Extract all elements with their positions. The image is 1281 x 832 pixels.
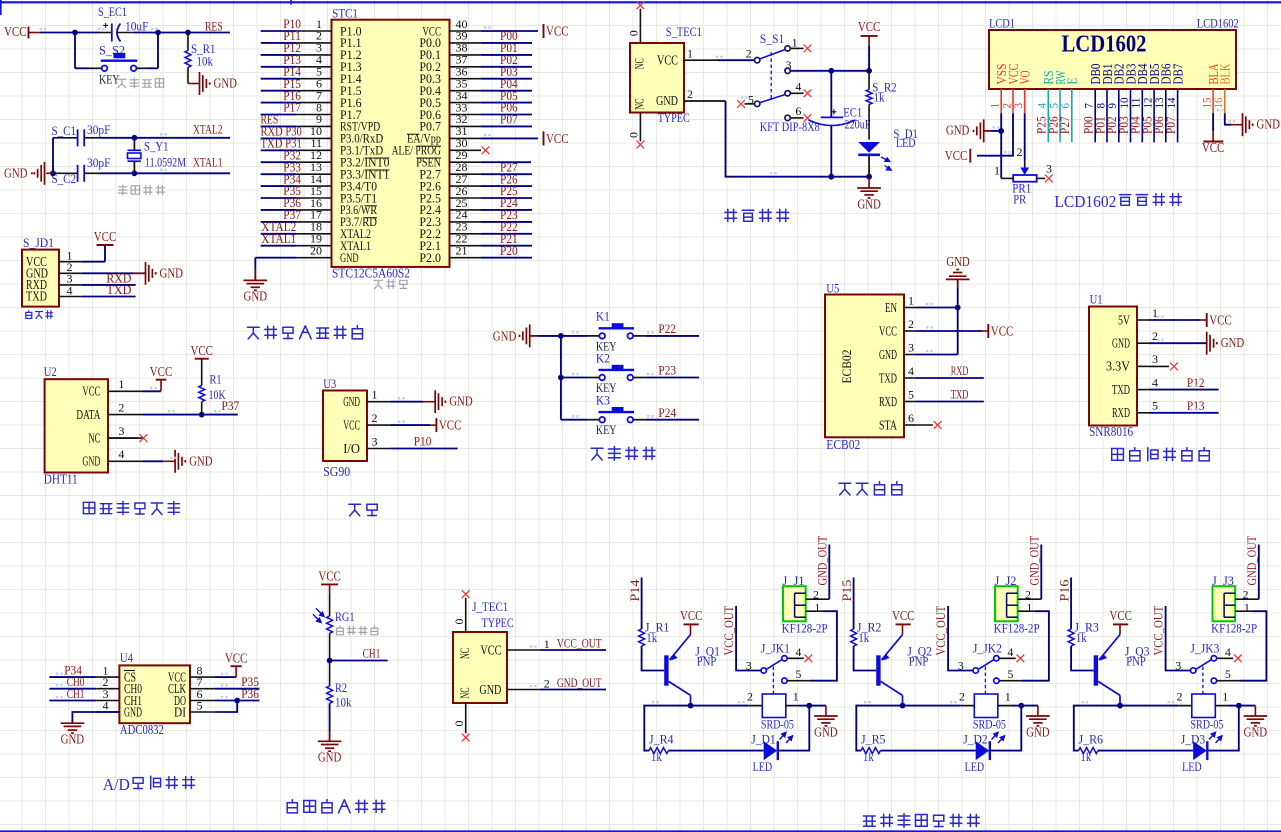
svg-text:20: 20	[310, 244, 322, 258]
svg-text:R1: R1	[210, 372, 222, 387]
svg-text:ECB02: ECB02	[839, 350, 854, 384]
pin 40	[450, 30, 482, 32]
svg-text:U3: U3	[323, 376, 336, 391]
svg-text:TYPEC: TYPEC	[658, 110, 690, 125]
svg-text:PR: PR	[1013, 192, 1026, 207]
svg-text:TXD: TXD	[879, 370, 897, 385]
svg-text:XTAL2: XTAL2	[193, 122, 223, 137]
svg-text:DI: DI	[174, 704, 186, 719]
svg-text:E: E	[1065, 78, 1080, 85]
svg-text:J_R6: J_R6	[1079, 731, 1104, 746]
svg-text:EN: EN	[885, 300, 897, 315]
wire	[1207, 706, 1239, 751]
wire	[481, 257, 532, 259]
pin 25	[450, 209, 482, 211]
svg-text:RXD: RXD	[1112, 405, 1130, 420]
svg-text:PNP: PNP	[909, 654, 929, 669]
wire	[261, 114, 297, 116]
svg-text:11.0592M: 11.0592M	[145, 155, 186, 170]
wire	[143, 390, 162, 392]
wire	[481, 125, 532, 127]
wire	[261, 42, 297, 44]
net P13	[1149, 412, 1219, 414]
svg-text:VCC: VCC	[1209, 313, 1232, 328]
wire	[40, 32, 100, 34]
wire	[1106, 114, 1108, 143]
svg-text:J_D3: J_D3	[1181, 731, 1206, 746]
no connect	[790, 117, 803, 119]
wire	[1098, 750, 1193, 752]
svg-text:GND: GND	[449, 394, 473, 409]
svg-text:U1: U1	[1090, 292, 1103, 307]
no connect	[462, 734, 470, 742]
svg-text:3: 3	[372, 434, 378, 448]
svg-text:10k: 10k	[197, 54, 214, 69]
svg-text:SRD-05: SRD-05	[973, 716, 1006, 731]
svg-text:P13: P13	[1187, 398, 1205, 413]
wire	[1153, 114, 1155, 143]
svg-text:1: 1	[1222, 690, 1228, 704]
pin 5	[297, 78, 332, 80]
svg-text:16: 16	[1211, 98, 1225, 109]
pin 34	[450, 102, 482, 104]
wire	[481, 233, 532, 235]
net CH1	[327, 658, 333, 664]
net P35	[215, 688, 260, 690]
pin 12	[297, 161, 332, 163]
svg-text:KEY: KEY	[596, 422, 617, 437]
svg-text:1: 1	[1026, 600, 1032, 614]
pin 8	[297, 114, 332, 116]
ground	[163, 460, 175, 462]
net TXD	[82, 296, 136, 298]
svg-text:NC: NC	[88, 430, 100, 445]
wire	[481, 42, 532, 44]
wire	[977, 114, 1013, 156]
svg-text:10uF: 10uF	[125, 19, 149, 34]
power port VCC	[156, 379, 167, 381]
svg-text:2: 2	[746, 47, 752, 61]
svg-text:0: 0	[627, 30, 641, 36]
svg-text:GND: GND	[946, 254, 970, 269]
svg-text:S_EC1: S_EC1	[98, 4, 127, 19]
wire	[957, 288, 959, 355]
pin 22	[450, 245, 482, 247]
svg-text:K1: K1	[596, 309, 610, 324]
svg-text:1k: 1k	[646, 630, 657, 645]
wire	[481, 78, 532, 80]
svg-text:LCD1602: LCD1602	[1062, 32, 1147, 58]
svg-text:21: 21	[456, 244, 468, 258]
wire	[990, 706, 1022, 751]
svg-text:KEY: KEY	[99, 72, 120, 87]
svg-text:VCC: VCC	[546, 131, 569, 146]
svg-text:3: 3	[746, 659, 752, 673]
svg-text:P17: P17	[283, 100, 301, 115]
svg-text:GND: GND	[124, 704, 142, 719]
svg-text:VCC: VCC	[480, 643, 501, 658]
svg-text:KF128-2P: KF128-2P	[782, 621, 828, 636]
title	[591, 447, 655, 461]
svg-text:I/O: I/O	[343, 441, 360, 456]
svg-text:VCC: VCC	[858, 19, 881, 34]
svg-text:4: 4	[795, 80, 801, 94]
svg-text:GND_OUT: GND_OUT	[557, 675, 602, 690]
svg-text:4: 4	[908, 364, 914, 378]
wire	[778, 706, 810, 751]
svg-text:P36: P36	[241, 686, 259, 701]
wire	[916, 354, 958, 356]
wire	[1000, 114, 1002, 179]
wire	[481, 185, 532, 187]
pin 1	[507, 649, 540, 651]
svg-text:1: 1	[793, 690, 799, 704]
ground	[809, 705, 826, 707]
svg-text:ECB02: ECB02	[826, 437, 860, 452]
svg-text:TXD: TXD	[106, 282, 131, 297]
net P34	[49, 676, 96, 678]
svg-text:PNP: PNP	[1126, 654, 1146, 669]
svg-text:VCC: VCC	[945, 148, 968, 163]
wire	[1118, 114, 1120, 143]
svg-text:SG90: SG90	[323, 464, 350, 479]
pin 3	[297, 54, 332, 56]
svg-text:3: 3	[958, 659, 964, 673]
no connect	[1149, 365, 1169, 367]
wire	[481, 90, 532, 92]
wire	[261, 245, 297, 247]
pin 13	[297, 173, 332, 175]
svg-text:STC12C5A60S2: STC12C5A60S2	[332, 266, 410, 281]
net RXD	[82, 284, 136, 286]
svg-text:VCC: VCC	[879, 323, 897, 338]
svg-text:PNP: PNP	[697, 654, 717, 669]
net P23	[633, 377, 645, 379]
svg-text:VCC_OUT: VCC_OUT	[933, 606, 948, 656]
wire	[1149, 342, 1207, 344]
svg-text:5: 5	[197, 698, 203, 712]
svg-text:K3: K3	[596, 393, 610, 408]
no connect	[916, 424, 933, 426]
pin 2	[297, 42, 332, 44]
net CH1	[49, 700, 96, 702]
svg-text:14: 14	[1164, 98, 1178, 109]
wire	[868, 46, 870, 71]
pin 35	[450, 90, 482, 92]
wire	[1165, 114, 1167, 143]
wire	[261, 149, 297, 151]
net P36	[215, 700, 260, 702]
wire	[1212, 113, 1214, 131]
wire	[390, 424, 430, 426]
wire	[481, 173, 532, 175]
title	[83, 501, 179, 514]
svg-text:J_R5: J_R5	[861, 731, 886, 746]
svg-text:P14: P14	[627, 579, 642, 601]
pin 11	[297, 149, 332, 151]
svg-text:GND: GND	[479, 682, 501, 697]
svg-text:GND_OUT: GND_OUT	[1027, 536, 1042, 586]
wire	[1120, 705, 1178, 707]
svg-text:VCC: VCC	[439, 418, 462, 433]
svg-text:J_R4: J_R4	[649, 731, 674, 746]
svg-text:RXD: RXD	[951, 363, 969, 378]
wire	[1024, 114, 1026, 161]
node junction	[72, 30, 78, 36]
wire	[1130, 114, 1132, 143]
svg-text:VCC_OUT: VCC_OUT	[1150, 606, 1165, 656]
svg-text:TYPEC: TYPEC	[482, 615, 514, 630]
wire	[481, 114, 532, 116]
wire	[642, 646, 665, 671]
power port VCC	[543, 131, 545, 145]
svg-text:TXD: TXD	[1112, 382, 1130, 397]
wire	[261, 161, 297, 163]
svg-text:NC: NC	[458, 688, 472, 699]
svg-text:XTAL1: XTAL1	[261, 231, 296, 246]
power port VCC	[195, 358, 209, 360]
pin 2	[684, 100, 726, 102]
pin 0	[465, 598, 467, 632]
wire	[903, 705, 961, 707]
wire	[1177, 114, 1179, 143]
svg-text:VCC: VCC	[94, 229, 117, 244]
svg-text:LCD1602: LCD1602	[1054, 192, 1116, 211]
pin 36	[450, 78, 482, 80]
svg-text:VCC_OUT: VCC_OUT	[557, 635, 602, 650]
svg-text:A/D: A/D	[103, 775, 130, 794]
wire	[726, 101, 870, 177]
wire	[1047, 114, 1049, 143]
svg-text:P20: P20	[500, 243, 518, 258]
wire	[916, 330, 982, 332]
net RXD	[916, 377, 984, 379]
svg-text:P2.0: P2.0	[419, 251, 441, 265]
svg-text:6: 6	[908, 411, 914, 425]
svg-text:RXD: RXD	[879, 394, 897, 409]
svg-text:4: 4	[118, 447, 124, 461]
svg-text:VCC: VCC	[343, 417, 360, 432]
pin 15	[297, 197, 332, 199]
svg-text:3: 3	[1152, 352, 1158, 366]
title	[839, 482, 902, 495]
wire	[1215, 705, 1228, 707]
wire	[691, 705, 749, 707]
svg-text:0: 0	[452, 721, 466, 727]
svg-text:1k: 1k	[874, 90, 885, 105]
svg-text:P07: P07	[500, 112, 518, 127]
svg-text:GND: GND	[214, 76, 238, 91]
svg-text:3: 3	[118, 424, 124, 438]
pin 14	[297, 185, 332, 187]
svg-text:K2: K2	[596, 350, 610, 365]
svg-text:LCD1602: LCD1602	[1197, 16, 1239, 31]
no connect	[108, 437, 139, 439]
wire	[481, 30, 538, 32]
wire	[261, 197, 297, 199]
svg-text:3: 3	[1046, 162, 1052, 176]
svg-text:STA: STA	[879, 417, 897, 432]
svg-text:ADC0832: ADC0832	[120, 722, 164, 737]
svg-text:SNR8016: SNR8016	[1089, 424, 1133, 439]
pin 0	[639, 9, 641, 43]
pin 7	[297, 102, 332, 104]
svg-text:J_JK3: J_JK3	[1190, 640, 1219, 655]
svg-text:GND: GND	[814, 724, 838, 739]
wire	[481, 197, 532, 199]
svg-text:J_TEC1: J_TEC1	[472, 599, 508, 614]
title	[864, 814, 980, 828]
ground	[61, 722, 85, 724]
net P22	[633, 335, 645, 337]
svg-text:2: 2	[687, 87, 693, 101]
wire	[261, 173, 297, 175]
power port VCC	[1203, 141, 1223, 143]
svg-text:VCC: VCC	[657, 53, 678, 68]
power port VCC	[969, 149, 971, 163]
svg-text:GND: GND	[61, 732, 85, 747]
annotation	[26, 311, 53, 319]
wire	[215, 676, 236, 678]
svg-text:3: 3	[908, 340, 914, 354]
svg-text:STC1: STC1	[332, 6, 358, 21]
svg-text:DB7: DB7	[1170, 63, 1185, 84]
pin 27	[450, 185, 482, 187]
wire	[143, 460, 164, 462]
svg-text:1: 1	[1005, 690, 1011, 704]
svg-text:2: 2	[1177, 690, 1183, 704]
svg-text:GND: GND	[244, 289, 268, 304]
net GND_OUT	[1258, 545, 1260, 600]
power port VCC	[231, 665, 242, 667]
pin 33	[450, 114, 482, 116]
no connect	[790, 47, 803, 49]
no connect	[745, 103, 755, 105]
svg-text:1: 1	[1244, 600, 1250, 614]
wire	[718, 59, 755, 61]
no connect	[637, 141, 645, 149]
wire	[390, 401, 423, 403]
pin 0	[639, 113, 641, 142]
svg-text:R2: R2	[335, 680, 347, 695]
net TXD	[916, 401, 984, 403]
svg-text:5: 5	[1225, 667, 1231, 681]
wire	[72, 712, 119, 723]
pin 19	[297, 245, 332, 247]
svg-text:VCC: VCC	[4, 24, 27, 39]
pin 23	[450, 233, 482, 235]
svg-text:GND: GND	[160, 265, 184, 280]
svg-text:U5: U5	[826, 281, 839, 296]
svg-text:GND: GND	[1244, 724, 1268, 739]
wire	[82, 272, 133, 274]
svg-text:0: 0	[627, 132, 641, 138]
wire	[52, 138, 54, 174]
ground	[1021, 705, 1038, 707]
svg-text:P12: P12	[1187, 375, 1205, 390]
wire	[790, 70, 869, 72]
wire	[481, 66, 532, 68]
svg-text:1: 1	[372, 388, 378, 402]
svg-text:1: 1	[792, 36, 798, 50]
svg-text:DHT11: DHT11	[44, 472, 78, 487]
power port VCC	[1200, 319, 1207, 321]
svg-text:LED: LED	[753, 759, 773, 774]
svg-text:S_Y1: S_Y1	[144, 139, 169, 154]
wire	[261, 66, 297, 68]
svg-text:GND: GND	[857, 196, 881, 211]
svg-text:VCC: VCC	[892, 608, 915, 623]
svg-text:220uF: 220uF	[845, 117, 871, 132]
wire	[481, 161, 531, 163]
svg-text:2: 2	[747, 690, 753, 704]
svg-text:4: 4	[1007, 645, 1013, 659]
wire	[1071, 114, 1073, 143]
title	[725, 209, 789, 221]
wire	[261, 137, 297, 139]
svg-text:1: 1	[687, 47, 693, 61]
ground	[254, 269, 256, 280]
svg-text:U2: U2	[44, 364, 57, 379]
svg-text:RES: RES	[205, 19, 223, 34]
svg-text:1: 1	[544, 637, 550, 651]
pin 17	[297, 221, 332, 223]
pin 9	[297, 125, 332, 127]
wire	[215, 701, 237, 713]
svg-text:P27: P27	[1057, 116, 1072, 134]
svg-text:SRD-05: SRD-05	[1190, 716, 1223, 731]
wire	[134, 32, 230, 34]
svg-text:GND: GND	[318, 750, 342, 765]
pin 38	[450, 54, 482, 56]
svg-text:KF128-2P: KF128-2P	[994, 621, 1040, 636]
svg-text:GND: GND	[879, 347, 897, 362]
svg-text:P16: P16	[1056, 579, 1071, 601]
svg-text:TXD: TXD	[26, 289, 47, 304]
pin 2	[507, 689, 540, 691]
wire	[1225, 113, 1232, 125]
wire	[1149, 319, 1200, 321]
no connect	[482, 146, 490, 154]
wire	[261, 30, 297, 32]
svg-text:4: 4	[1225, 645, 1231, 659]
wire	[668, 750, 763, 752]
wire	[143, 414, 238, 416]
svg-text:3: 3	[1175, 659, 1181, 673]
pin 0	[465, 703, 467, 733]
svg-text:4: 4	[1152, 375, 1158, 389]
svg-text:5V: 5V	[1118, 312, 1130, 327]
wire	[261, 185, 297, 187]
ground	[1206, 332, 1208, 355]
wire markers	[40, 26, 1236, 703]
pin 37	[450, 66, 482, 68]
svg-text:GND: GND	[1257, 117, 1281, 132]
power port VCC	[430, 424, 436, 426]
svg-text:P24: P24	[658, 405, 676, 420]
wire	[261, 221, 297, 223]
wire	[1094, 114, 1096, 143]
svg-text:VCC_OUT: VCC_OUT	[721, 606, 736, 656]
ground	[329, 731, 331, 741]
svg-text:S_TEC1: S_TEC1	[666, 24, 702, 39]
no connect	[1217, 657, 1234, 659]
svg-text:VCC: VCC	[225, 651, 248, 666]
svg-text:XTAL1: XTAL1	[193, 155, 223, 170]
svg-text:1: 1	[994, 164, 1000, 178]
pin 39	[450, 42, 482, 44]
node	[1117, 703, 1123, 709]
